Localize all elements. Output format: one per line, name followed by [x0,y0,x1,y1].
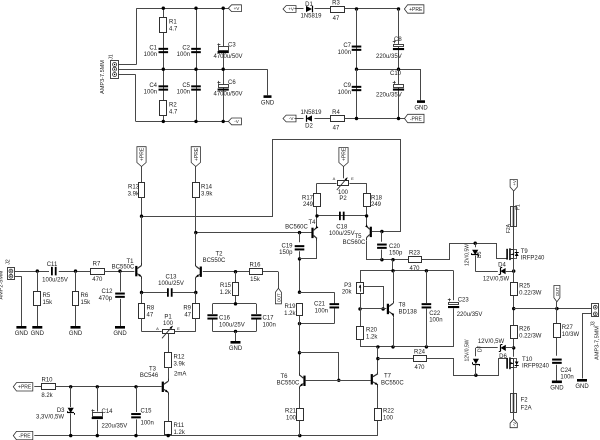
svg-text:GND: GND [69,331,83,337]
svg-text:4700u/50V: 4700u/50V [214,92,243,98]
svg-text:T5: T5 [354,234,362,240]
svg-text:100n: 100n [560,375,573,381]
svg-text:T3: T3 [149,367,157,373]
svg-text:BC560C: BC560C [285,224,308,230]
svg-text:249: 249 [303,202,314,208]
svg-text:15k: 15k [43,300,54,306]
svg-text:20k: 20k [342,290,353,296]
svg-text:100n: 100n [177,90,190,96]
svg-text:R8: R8 [147,306,155,312]
svg-text:100: 100 [383,416,394,422]
svg-text:D4: D4 [498,262,506,268]
svg-text:D1: D1 [305,2,313,8]
svg-text:47: 47 [333,126,340,132]
svg-text:1.2k: 1.2k [284,311,296,317]
svg-text:100u/25V: 100u/25V [329,231,355,237]
svg-text:-PRE: -PRE [19,433,32,439]
svg-text:249: 249 [371,202,382,208]
svg-text:C11: C11 [47,262,58,268]
svg-text:R10: R10 [41,378,53,384]
svg-text:T6: T6 [280,374,288,380]
svg-text:R13: R13 [128,185,140,191]
svg-text:R27: R27 [562,325,574,331]
svg-text:C2: C2 [182,46,190,52]
svg-text:D3: D3 [57,408,65,414]
svg-text:D6: D6 [499,354,507,360]
svg-text:8.2k: 8.2k [41,393,53,399]
svg-text:C20: C20 [389,244,401,250]
svg-text:J2: J2 [6,259,12,265]
svg-text:BC550C: BC550C [381,380,404,386]
svg-text:F2A: F2A [506,223,512,233]
svg-text:-PRE: -PRE [410,116,423,122]
svg-text:C16: C16 [219,316,231,322]
svg-text:T2: T2 [215,252,223,258]
svg-text:470: 470 [409,266,420,272]
svg-text:C3: C3 [228,43,236,49]
svg-text:1.2k: 1.2k [366,335,378,341]
svg-text:A: A [156,326,159,331]
svg-text:P3: P3 [344,283,352,289]
svg-text:T10: T10 [522,357,533,363]
svg-text:GND: GND [414,106,428,112]
svg-text:4700u/50V: 4700u/50V [214,54,243,60]
svg-text:C17: C17 [263,316,275,322]
svg-text:GND: GND [261,101,275,107]
svg-text:F2: F2 [521,398,529,404]
svg-text:J1: J1 [109,54,115,60]
svg-text:220u/35V: 220u/35V [102,424,128,430]
svg-text:C5: C5 [182,83,190,89]
svg-text:D7: D7 [478,345,484,352]
svg-text:470: 470 [92,277,103,283]
svg-text:2mA: 2mA [174,372,186,378]
svg-text:100n: 100n [338,90,351,96]
svg-text:F2A: F2A [521,406,532,412]
svg-text:BC550C: BC550C [277,381,300,387]
svg-text:GND: GND [113,331,127,337]
svg-text:A: A [333,176,336,181]
svg-text:C23: C23 [458,298,470,304]
svg-text:R22: R22 [383,409,395,415]
svg-text:C1: C1 [149,46,157,52]
svg-text:100u/25V: 100u/25V [158,281,184,287]
svg-text:12V/0,5W: 12V/0,5W [464,339,470,361]
svg-text:47: 47 [184,313,191,319]
svg-text:220u/35V: 220u/35V [457,312,483,318]
svg-text:3.9k: 3.9k [174,362,186,368]
svg-text:+V: +V [288,7,295,12]
svg-text:+PRE: +PRE [18,385,32,391]
svg-text:100n: 100n [177,52,190,58]
svg-text:GND: GND [31,331,45,337]
svg-text:C14: C14 [102,409,114,415]
svg-text:R20: R20 [366,328,378,334]
svg-text:100: 100 [163,321,174,327]
svg-text:C19: C19 [281,244,293,250]
svg-text:IRFP240: IRFP240 [521,255,545,261]
svg-text:0.22/3W: 0.22/3W [519,334,542,340]
svg-text:R15: R15 [220,283,232,289]
svg-text:100: 100 [286,416,297,422]
svg-text:-V: -V [512,422,517,426]
svg-text:C8: C8 [394,37,402,43]
svg-text:C15: C15 [141,409,153,415]
svg-text:220u/35V: 220u/35V [376,93,402,99]
svg-text:P1: P1 [164,315,172,321]
svg-text:+PRE: +PRE [194,147,200,161]
svg-text:470p: 470p [99,296,113,302]
svg-text:GND: GND [550,386,564,392]
svg-text:T9: T9 [521,249,529,255]
svg-text:+PRE: +PRE [140,147,146,161]
svg-text:100n: 100n [144,90,157,96]
svg-text:47: 47 [147,313,154,319]
svg-text:R24: R24 [414,350,426,356]
svg-text:AMP3-7,5MM: AMP3-7,5MM [595,326,600,360]
svg-text:T7: T7 [384,374,392,380]
svg-text:D2: D2 [305,124,313,130]
svg-text:E: E [351,176,354,181]
svg-text:C6: C6 [228,80,236,86]
svg-text:220u/35V: 220u/35V [376,54,402,60]
svg-text:100n: 100n [144,52,157,58]
svg-text:T4: T4 [308,220,316,226]
svg-text:1.2k: 1.2k [220,290,232,296]
svg-text:100n: 100n [338,50,351,56]
svg-text:P2: P2 [339,196,347,202]
svg-text:C9: C9 [343,83,351,89]
svg-text:OUT: OUT [555,287,560,296]
svg-text:R7: R7 [93,262,101,268]
svg-text:GND: GND [15,331,29,337]
svg-text:15k: 15k [250,277,261,283]
svg-text:BC546: BC546 [140,373,159,379]
svg-text:15k: 15k [81,300,92,306]
svg-text:12V/0,5W: 12V/0,5W [464,244,470,266]
svg-text:4.7: 4.7 [169,110,178,116]
svg-text:R6: R6 [81,293,89,299]
svg-text:10/3W: 10/3W [562,332,580,338]
svg-text:R12: R12 [174,355,186,361]
svg-text:150p: 150p [279,250,293,256]
svg-text:47: 47 [333,16,340,22]
svg-text:R9: R9 [183,306,191,312]
svg-text:4.7: 4.7 [169,27,178,33]
svg-text:GND: GND [575,384,589,390]
svg-text:3,3V/0,5W: 3,3V/0,5W [36,415,64,421]
svg-text:1N5819: 1N5819 [300,14,322,20]
svg-text:R26: R26 [519,327,531,333]
svg-text:D5: D5 [477,251,483,258]
svg-text:C4: C4 [149,83,157,89]
svg-text:1N5819: 1N5819 [300,110,322,116]
svg-text:+V: +V [234,6,241,11]
svg-text:C10: C10 [390,71,402,77]
svg-text:R5: R5 [43,293,51,299]
svg-text:C22: C22 [429,311,441,317]
svg-text:R4: R4 [332,110,340,116]
svg-text:R2: R2 [169,103,177,109]
svg-text:C13: C13 [165,275,177,281]
svg-text:C7: C7 [343,43,351,49]
svg-text:OUT: OUT [277,293,282,302]
svg-text:150p: 150p [389,251,403,257]
svg-text:+V: +V [512,180,517,185]
svg-text:R25: R25 [519,284,531,290]
svg-text:GND: GND [229,346,243,352]
svg-text:R19: R19 [284,304,296,310]
svg-text:R3: R3 [332,1,340,7]
svg-text:R16: R16 [249,263,261,269]
svg-text:C21: C21 [314,302,326,308]
svg-text:100n: 100n [315,309,328,315]
svg-text:BC560C: BC560C [343,240,366,246]
svg-text:J3: J3 [591,321,597,327]
svg-text:IRFP9240: IRFP9240 [522,363,550,369]
svg-text:C24: C24 [560,368,572,374]
svg-text:R14: R14 [201,185,213,191]
svg-text:F1: F1 [516,204,522,210]
svg-text:100u/25V: 100u/25V [42,278,68,284]
svg-text:100n: 100n [141,421,154,427]
svg-text:R18: R18 [371,196,383,202]
svg-text:C18: C18 [336,225,348,231]
svg-text:T8: T8 [399,303,407,309]
svg-text:R1: R1 [169,20,177,26]
svg-text:BD138: BD138 [399,309,418,315]
svg-text:R21: R21 [285,409,297,415]
svg-text:R11: R11 [174,423,185,429]
svg-text:+PRE: +PRE [409,7,423,13]
svg-text:0.22/3W: 0.22/3W [519,291,542,297]
svg-text:BC550C: BC550C [203,258,226,264]
svg-text:100n: 100n [429,317,442,323]
svg-text:100u/25V: 100u/25V [219,323,245,329]
svg-text:3.9k: 3.9k [201,192,213,198]
svg-text:12V/0,5W: 12V/0,5W [478,339,505,345]
svg-text:AMP2-5MM: AMP2-5MM [0,270,5,299]
svg-text:E: E [177,326,180,331]
svg-text:470: 470 [414,365,425,371]
svg-text:100n: 100n [263,323,276,329]
svg-text:AMP3-7.5MM: AMP3-7.5MM [100,60,106,94]
svg-text:C12: C12 [101,289,113,295]
svg-text:R17: R17 [302,196,314,202]
svg-text:+PRE: +PRE [342,147,348,161]
svg-text:12V/0,5W: 12V/0,5W [483,277,510,283]
svg-text:R23: R23 [409,251,421,257]
svg-text:3.9k: 3.9k [128,192,140,198]
svg-text:BC550C: BC550C [112,264,135,270]
